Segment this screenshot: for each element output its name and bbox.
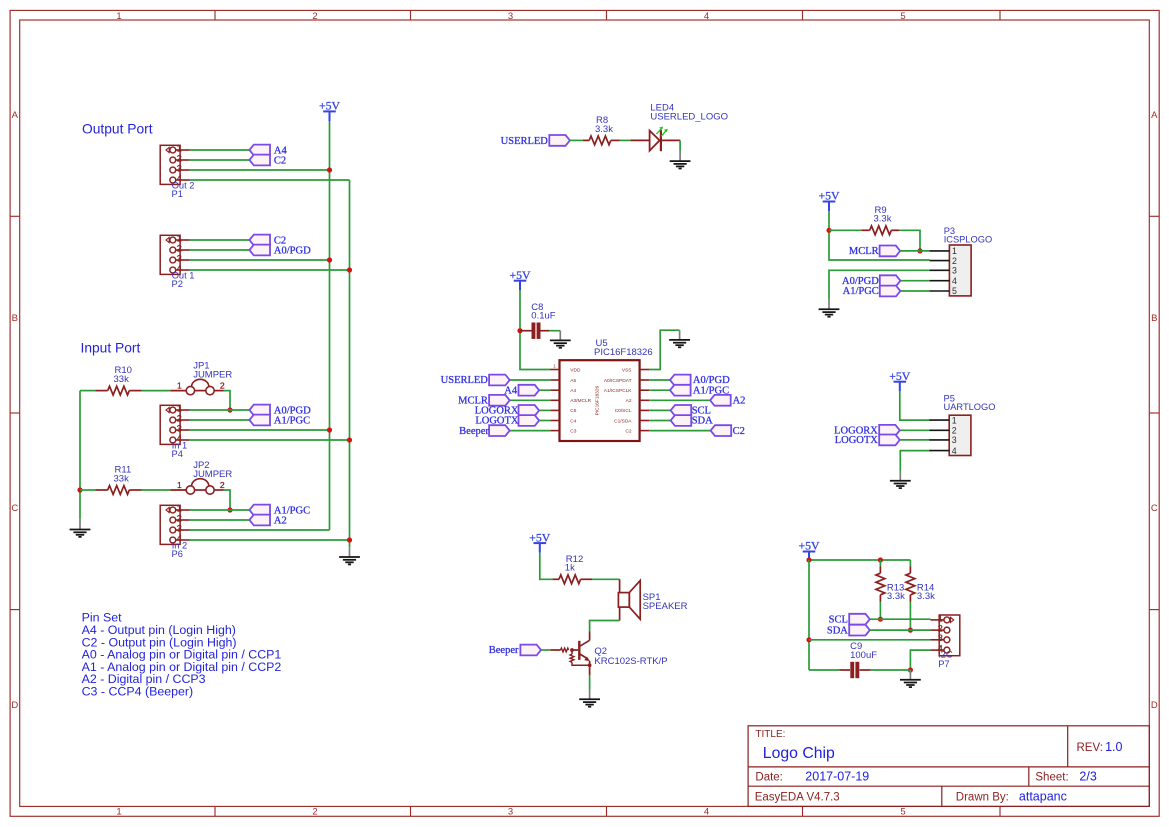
- wire +5V P5: [900, 391, 930, 420]
- wire P4 pin1 to A0/PGD: [190, 409, 250, 411]
- svg-text:C0/SCL: C0/SCL: [615, 408, 632, 414]
- svg-text:KRC102S-RTK/P: KRC102S-RTK/P: [594, 656, 667, 667]
- wire U5 C3: [510, 430, 551, 432]
- connector P2: [160, 233, 194, 289]
- svg-text:A3/MCLR: A3/MCLR: [570, 398, 591, 404]
- ground VSS: [669, 330, 690, 347]
- wire C8 lead left: [520, 330, 532, 332]
- svg-text:2: 2: [177, 513, 182, 523]
- svg-text:3.3k: 3.3k: [595, 124, 613, 135]
- junction JP2/P6 pin1: [227, 507, 232, 512]
- svg-text:2: 2: [220, 480, 225, 490]
- svg-text:3: 3: [177, 523, 182, 533]
- resistor R13: [876, 573, 905, 602]
- svg-text:JUMPER: JUMPER: [193, 370, 232, 381]
- ground GND rail: [339, 547, 360, 564]
- svg-text:Logo Chip: Logo Chip: [763, 745, 835, 762]
- wire Beeper to Q2: [541, 649, 550, 651]
- ground P3: [819, 300, 840, 317]
- svg-text:B: B: [1151, 313, 1157, 324]
- svg-text:SCL: SCL: [829, 614, 848, 625]
- svg-text:A1/PGC: A1/PGC: [843, 286, 879, 297]
- net flag A0/PGD: [249, 405, 311, 417]
- junction R11 row: [77, 487, 82, 492]
- wire R13 top lead: [879, 560, 881, 567]
- wire R10 lead right: [129, 390, 141, 392]
- junction P4 pin4: [347, 437, 352, 442]
- wire I2C bottom rail left: [809, 669, 839, 671]
- wire P2 pin4 to GND rail: [190, 269, 350, 271]
- svg-text:2: 2: [952, 256, 957, 266]
- junction R14/SDA: [908, 628, 913, 633]
- wire P3 pin3 to ground: [829, 270, 930, 299]
- net flag SCL: [671, 405, 711, 417]
- wire +5V rail vertical: [329, 121, 331, 530]
- wire VSS to ground: [649, 330, 679, 369]
- junction P6 pin4: [347, 537, 352, 542]
- wire P7 pin4 to ground: [910, 650, 930, 670]
- net flag A1/PGC: [670, 385, 729, 397]
- wire U5 A5: [510, 379, 551, 381]
- svg-text:LOGOTX: LOGOTX: [835, 435, 879, 446]
- wire P5 pin2: [900, 429, 930, 431]
- wire P3 pin4: [900, 280, 929, 282]
- wire Q2 emitter to ground: [589, 675, 591, 690]
- wire C8 to ground: [549, 330, 560, 332]
- net flag A4: [249, 145, 287, 157]
- LED LED4: [630, 103, 728, 152]
- svg-text:USERLED_LOGO: USERLED_LOGO: [650, 111, 728, 122]
- junction JP1/P4 pin1: [227, 407, 232, 412]
- wire U5 A1: [649, 389, 670, 391]
- wire +5V I2C stub: [808, 559, 810, 561]
- svg-text:Drawn By:: Drawn By:: [956, 791, 1009, 803]
- wire I2C left rail: [808, 560, 810, 670]
- ground LED4: [670, 151, 691, 168]
- wire R9 left: [829, 229, 861, 231]
- svg-text:1: 1: [177, 403, 182, 413]
- svg-text:3: 3: [177, 253, 182, 263]
- connector P5: [929, 394, 995, 456]
- wire R11 to JP2: [142, 489, 171, 491]
- connector P3: [930, 226, 993, 296]
- transistor Q2: [550, 632, 667, 676]
- wire P1 pin4 to GND rail: [190, 179, 350, 181]
- svg-text:SDA: SDA: [827, 625, 848, 636]
- svg-text:I2C: I2C: [938, 649, 953, 659]
- wire JP2 lead right: [214, 489, 223, 491]
- net flag A1/PGC: [843, 286, 901, 298]
- svg-text:3: 3: [508, 807, 513, 818]
- net flag C2: [711, 425, 745, 437]
- svg-text:C2: C2: [625, 428, 631, 434]
- svg-text:A1/ICSPCLK: A1/ICSPCLK: [604, 388, 633, 394]
- junction I2C +5V: [806, 557, 811, 562]
- power +5V rail: [319, 99, 341, 121]
- wire P3 pin5: [900, 290, 929, 292]
- wire P4 pin2 to A1/PGC: [190, 419, 250, 421]
- ground input rail: [70, 520, 91, 537]
- svg-text:TITLE:: TITLE:: [755, 729, 785, 740]
- svg-text:P2: P2: [172, 279, 183, 289]
- svg-text:3: 3: [177, 163, 182, 173]
- wire R11 lead right: [129, 489, 141, 491]
- power +5V U5: [509, 268, 531, 290]
- wire P5 pin4 to ground: [900, 451, 930, 471]
- power +5V I2C: [798, 539, 820, 561]
- wire U5 A2: [649, 399, 710, 401]
- net flag A1/PGC: [249, 415, 310, 427]
- wire U5 A4: [539, 389, 550, 391]
- net flag MCLR: [458, 395, 510, 407]
- net flag SDA: [827, 625, 870, 637]
- wire SDA to P7 pin2: [870, 629, 931, 631]
- svg-text:2: 2: [177, 243, 182, 253]
- svg-text:JUMPER: JUMPER: [193, 469, 232, 480]
- svg-text:USERLED: USERLED: [501, 136, 549, 147]
- net flag C2: [249, 155, 286, 167]
- svg-text:3: 3: [952, 266, 957, 276]
- svg-text:2: 2: [220, 380, 225, 390]
- svg-text:A2: A2: [626, 398, 632, 404]
- wire U5 SDA: [649, 420, 670, 422]
- wire U5 C4: [539, 420, 550, 422]
- junction P2 pin4: [347, 267, 352, 272]
- net flag A1/PGC: [249, 505, 310, 517]
- wire R10 lead left: [95, 390, 107, 392]
- wire +5V P3 vertical: [829, 211, 930, 260]
- wire P1 pin1 to A4: [190, 149, 250, 151]
- svg-text:2: 2: [938, 624, 943, 634]
- svg-text:2: 2: [177, 413, 182, 423]
- svg-text:Date:: Date:: [755, 771, 783, 783]
- svg-text:A0/PGD: A0/PGD: [274, 245, 311, 256]
- net flag A0/PGD: [842, 275, 900, 287]
- junction R9 tap: [826, 228, 831, 233]
- svg-text:EasyEDA V4.7.3: EasyEDA V4.7.3: [755, 791, 840, 803]
- junction P1 pin3: [327, 167, 332, 172]
- svg-text:1: 1: [177, 380, 182, 390]
- wire LED4 to ground: [679, 140, 681, 151]
- wire input pull rail vertical: [79, 391, 81, 520]
- wire P5 pin3: [900, 439, 930, 441]
- svg-text:1: 1: [116, 11, 121, 22]
- junction P2 pin3: [327, 257, 332, 262]
- svg-text:P1: P1: [172, 189, 183, 199]
- svg-text:A: A: [1151, 110, 1158, 121]
- wire R8 to LED4: [620, 139, 631, 141]
- svg-text:4: 4: [952, 446, 957, 456]
- svg-text:5: 5: [900, 807, 905, 818]
- connector P6: [160, 503, 190, 559]
- ground I2C: [900, 670, 921, 687]
- svg-text:Beeper: Beeper: [459, 426, 489, 437]
- wire JP1 mid: [195, 390, 206, 392]
- resistor R14: [906, 573, 935, 602]
- title block: [748, 726, 1149, 807]
- wire R10 left: [80, 390, 95, 392]
- wire R8 lead right: [611, 139, 620, 141]
- svg-text:P7: P7: [938, 659, 949, 669]
- svg-text:VDD: VDD: [570, 367, 581, 373]
- wire R14 top lead: [909, 560, 911, 567]
- wire U5 SCL: [649, 409, 670, 411]
- wire I2C bottom rail right: [871, 669, 911, 671]
- svg-text:1: 1: [553, 363, 556, 368]
- svg-text:USERLED: USERLED: [441, 375, 489, 386]
- wire P2 pin3 to +5V rail: [190, 259, 330, 261]
- svg-text:A: A: [12, 110, 19, 121]
- net flag LOGOTX: [475, 415, 539, 427]
- wire P4 pin4 to GND rail: [190, 439, 350, 441]
- wire R12 lead right: [581, 578, 593, 580]
- svg-text:A4: A4: [570, 388, 576, 394]
- svg-text:3: 3: [952, 435, 957, 445]
- IC U5 PIC16F18326: [550, 338, 652, 441]
- svg-text:4: 4: [952, 276, 957, 286]
- net flag A2: [249, 515, 286, 527]
- wire GND rail vertical: [349, 180, 351, 547]
- net flag SDA: [671, 415, 714, 427]
- net flag LOGORX: [834, 425, 900, 437]
- svg-text:SPEAKER: SPEAKER: [643, 601, 688, 612]
- net flag SCL: [829, 614, 870, 626]
- jumper JP1: [177, 361, 232, 395]
- svg-text:1: 1: [116, 807, 121, 818]
- svg-text:Sheet:: Sheet:: [1035, 771, 1068, 783]
- jumper JP2: [177, 460, 232, 494]
- wire U5 C5: [539, 409, 550, 411]
- capacitor C9: [850, 641, 877, 678]
- net flag A0/PGD: [249, 245, 311, 257]
- wire R14 bottom lead: [909, 595, 911, 602]
- resistor R11: [108, 465, 132, 495]
- svg-text:PIC16F18326: PIC16F18326: [595, 385, 601, 415]
- wire JP2 down to P6 pin1: [224, 490, 231, 510]
- wire net C3-row P6 pin3 horizontal: [190, 529, 330, 531]
- svg-text:VSS: VSS: [622, 367, 632, 373]
- svg-text:Input Port: Input Port: [81, 340, 141, 355]
- svg-text:1: 1: [938, 613, 943, 623]
- svg-text:UARTLOGO: UARTLOGO: [944, 402, 996, 412]
- svg-text:ICSPLOGO: ICSPLOGO: [944, 234, 993, 244]
- svg-text:1: 1: [177, 503, 182, 513]
- svg-text:2: 2: [177, 153, 182, 163]
- power +5V SP1: [529, 530, 551, 552]
- power +5V P3: [818, 189, 840, 211]
- wire P6 pin2 to A2: [190, 519, 250, 521]
- svg-text:100uF: 100uF: [850, 650, 877, 661]
- svg-text:3.3k: 3.3k: [917, 591, 935, 602]
- wire R13 bottom lead: [879, 595, 881, 602]
- resistor R10: [108, 365, 132, 395]
- svg-text:1: 1: [952, 415, 957, 425]
- svg-text:C5: C5: [570, 408, 576, 414]
- net flag Beeper: [489, 645, 541, 657]
- wire P2 pin2 to A0/PGD: [190, 249, 250, 251]
- wire P2 pin1 to C2: [190, 239, 250, 241]
- junction R13/SCL: [878, 617, 883, 622]
- svg-text:Beeper: Beeper: [489, 645, 519, 656]
- ground P5: [890, 471, 911, 488]
- svg-text:B: B: [12, 313, 18, 324]
- svg-text:A1/PGC: A1/PGC: [274, 415, 310, 426]
- svg-text:C2: C2: [274, 155, 286, 166]
- connector P1: [160, 143, 194, 199]
- wire JP2 lead left: [170, 489, 186, 491]
- svg-text:C2: C2: [733, 426, 745, 437]
- net flag LOGORX: [475, 405, 539, 417]
- resistor R8: [589, 115, 613, 145]
- connector P4: [160, 403, 190, 459]
- wire USERLED to R8: [570, 139, 583, 141]
- svg-text:4: 4: [704, 807, 709, 818]
- svg-text:REV:: REV:: [1077, 742, 1103, 754]
- svg-text:C3 - CCP4 (Beeper): C3 - CCP4 (Beeper): [82, 684, 194, 698]
- junction I2C ground: [908, 667, 913, 672]
- svg-text:SDA: SDA: [692, 416, 713, 427]
- wire C9 lead left: [839, 669, 850, 671]
- svg-text:A0/ICSPDAT: A0/ICSPDAT: [604, 378, 632, 384]
- ground C8: [550, 331, 571, 348]
- svg-text:3: 3: [177, 423, 182, 433]
- net flag A0/PGD: [670, 375, 730, 387]
- svg-text:5: 5: [952, 286, 957, 296]
- svg-text:C: C: [11, 503, 18, 514]
- net flag LOGOTX: [835, 435, 900, 447]
- svg-text:Output Port: Output Port: [82, 122, 153, 137]
- net flag C2: [249, 235, 286, 247]
- net flag A4: [504, 385, 539, 397]
- wire MCLR to P3 pin1: [900, 250, 930, 252]
- svg-text:D: D: [11, 700, 18, 711]
- svg-text:33k: 33k: [114, 473, 130, 484]
- svg-text:3.3k: 3.3k: [874, 214, 892, 225]
- svg-text:1: 1: [177, 233, 182, 243]
- wire JP2 mid: [195, 489, 206, 491]
- wire P1 pin2 to C2: [190, 159, 250, 161]
- wire JP1 lead left: [170, 390, 186, 392]
- svg-text:C4: C4: [570, 418, 576, 424]
- wire R12 to SP1: [592, 578, 619, 580]
- wire SP1 to Q2 collector: [590, 621, 620, 632]
- svg-text:D: D: [1151, 700, 1158, 711]
- ground Q2: [579, 690, 600, 707]
- svg-text:C1/SDA: C1/SDA: [614, 418, 632, 424]
- svg-text:3: 3: [508, 11, 513, 22]
- wire P6 pin1 to A1/PGC: [190, 509, 250, 511]
- svg-text:1.0: 1.0: [1105, 740, 1122, 754]
- junction MCLR: [917, 248, 922, 253]
- resistor R12: [559, 554, 583, 584]
- wire JP1 lead right: [214, 390, 223, 392]
- wire +5V to VDD: [520, 290, 551, 369]
- wire P7 pin3: [809, 639, 931, 641]
- svg-text:1: 1: [177, 143, 182, 153]
- svg-text:MCLR: MCLR: [849, 246, 879, 257]
- svg-text:C3: C3: [570, 428, 576, 434]
- wire R9 to MCLR row: [899, 230, 920, 251]
- junction P4 pin3: [327, 427, 332, 432]
- wire SCL to P7 pin1: [870, 618, 931, 620]
- connector P7: [931, 613, 960, 669]
- svg-text:4: 4: [704, 11, 709, 22]
- junction R13 top: [878, 557, 883, 562]
- wire SP1 top lead: [619, 579, 621, 592]
- svg-text:2: 2: [952, 426, 957, 436]
- junction P7 pin3 row: [806, 637, 811, 642]
- capacitor C8: [531, 302, 555, 339]
- net flag USERLED: [441, 375, 510, 387]
- wire C8 lead right: [540, 330, 549, 332]
- svg-text:P6: P6: [172, 549, 183, 559]
- svg-text:1: 1: [177, 480, 182, 490]
- resistor R9: [870, 205, 892, 235]
- svg-text:2017-07-19: 2017-07-19: [805, 769, 869, 783]
- wire R9 lead right: [891, 229, 899, 231]
- net flag Beeper: [459, 425, 510, 437]
- power +5V P5: [889, 369, 911, 391]
- svg-text:1k: 1k: [565, 563, 575, 574]
- wire U5 MCLR: [510, 399, 551, 401]
- svg-text:0.1uF: 0.1uF: [531, 311, 555, 322]
- svg-text:PIC16F18326: PIC16F18326: [594, 347, 653, 358]
- wire U5 A0: [649, 379, 670, 381]
- svg-text:33k: 33k: [114, 374, 130, 385]
- svg-text:A2: A2: [733, 396, 746, 407]
- net flag USERLED: [501, 135, 570, 147]
- svg-text:2: 2: [312, 807, 317, 818]
- svg-text:3: 3: [938, 633, 943, 643]
- wire +5V to R12: [540, 553, 553, 580]
- junction C8 tap: [517, 328, 522, 333]
- wire P6 pin4 to GND rail: [190, 539, 350, 541]
- svg-text:P4: P4: [172, 449, 183, 459]
- wire JP1 down to P4 pin1: [224, 391, 231, 410]
- wire P4 pin3 to +5V rail: [190, 429, 330, 431]
- wire C9 lead right: [860, 669, 871, 671]
- svg-text:attapanc: attapanc: [1019, 789, 1067, 803]
- net flag MCLR: [849, 246, 900, 258]
- svg-text:1: 1: [952, 246, 957, 256]
- svg-text:5: 5: [900, 11, 905, 22]
- wire SP1 bottom lead: [619, 607, 621, 620]
- svg-text:2/3: 2/3: [1079, 769, 1096, 783]
- net flag A2: [710, 395, 745, 407]
- wire R10 to JP1: [142, 390, 171, 392]
- wire U5 C2: [649, 430, 710, 432]
- svg-text:A5: A5: [570, 378, 576, 384]
- wire R11 lead left: [80, 489, 95, 491]
- annotation "Pin Set" block: [82, 611, 282, 699]
- wire P1 pin3 to +5V rail: [190, 169, 330, 171]
- wire LED4 cathode: [661, 139, 680, 141]
- svg-text:2: 2: [312, 11, 317, 22]
- wire I2C top rail: [809, 559, 910, 561]
- speaker SP1: [618, 581, 687, 620]
- svg-text:C: C: [1151, 503, 1158, 514]
- svg-text:A2: A2: [274, 515, 287, 526]
- svg-text:3.3k: 3.3k: [887, 591, 905, 602]
